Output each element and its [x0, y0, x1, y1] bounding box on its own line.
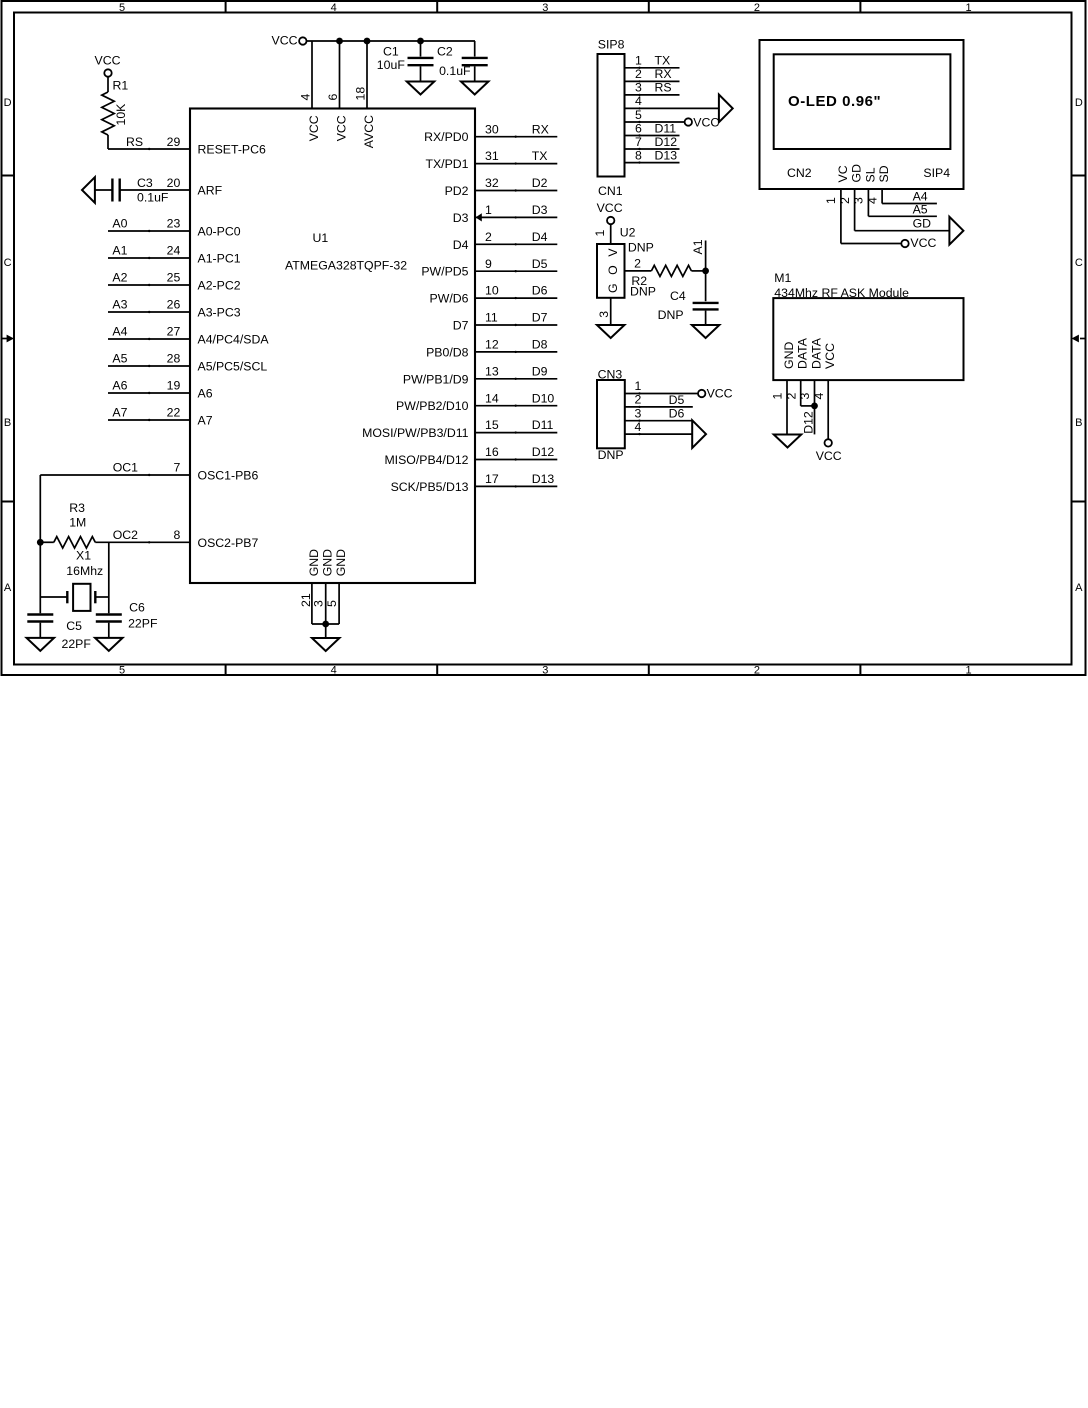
svg-text:3: 3 — [312, 600, 326, 607]
svg-text:ARF: ARF — [198, 184, 223, 198]
wire pin A4 — [108, 338, 190, 340]
svg-text:13: 13 — [485, 364, 499, 378]
svg-text:28: 28 — [167, 352, 181, 366]
svg-text:O-LED 0.96": O-LED 0.96" — [788, 93, 881, 110]
wire pin 30 net RX — [475, 136, 557, 138]
wire pin 14 net D10 — [475, 405, 557, 407]
svg-text:2: 2 — [635, 67, 642, 81]
OLED module CN2 outer body — [760, 40, 964, 189]
ground at U1 — [312, 638, 340, 651]
svg-text:5: 5 — [119, 2, 125, 14]
svg-text:22: 22 — [167, 406, 181, 420]
wire M1 pin2 — [800, 380, 802, 406]
svg-text:X1: X1 — [76, 549, 91, 563]
svg-text:8: 8 — [173, 528, 180, 542]
svg-text:31: 31 — [485, 149, 499, 163]
svg-text:A1: A1 — [112, 244, 127, 258]
svg-text:C: C — [1075, 257, 1083, 269]
border row ticks — [2, 175, 15, 177]
sheet border inner frame — [14, 13, 1072, 665]
svg-text:11: 11 — [485, 311, 498, 325]
svg-text:SD: SD — [877, 165, 891, 182]
sheet connector arrow GD — [949, 217, 963, 245]
ground at U2 pin3 — [597, 325, 625, 338]
svg-text:2: 2 — [754, 2, 760, 14]
wire right crystal leg — [108, 542, 110, 613]
svg-text:SCK/PB5/D13: SCK/PB5/D13 — [391, 480, 469, 494]
svg-text:D5: D5 — [669, 393, 685, 407]
wire CN1 pin 6 — [625, 135, 680, 137]
svg-text:C2: C2 — [437, 45, 453, 59]
svg-text:RS: RS — [655, 81, 672, 95]
svg-text:PW/PB2/D10: PW/PB2/D10 — [396, 399, 469, 413]
wire VCC rail — [307, 40, 476, 42]
svg-text:A0: A0 — [112, 217, 127, 231]
svg-text:A5: A5 — [112, 352, 127, 366]
VCC terminal circle — [299, 37, 306, 44]
svg-text:TX/PD1: TX/PD1 — [425, 157, 468, 171]
svg-text:30: 30 — [485, 122, 499, 136]
svg-text:A0-PC0: A0-PC0 — [198, 225, 241, 239]
svg-text:25: 25 — [167, 271, 181, 285]
svg-text:OC1: OC1 — [113, 461, 138, 475]
svg-text:D13: D13 — [655, 148, 678, 162]
ground left at C3 — [82, 177, 95, 203]
svg-text:A7: A7 — [112, 406, 127, 420]
svg-text:GND: GND — [307, 549, 321, 576]
svg-text:RX: RX — [532, 122, 549, 136]
wire M1 pin4 to VCC — [827, 380, 829, 439]
svg-text:D10: D10 — [532, 391, 555, 405]
capacitor C5 — [27, 613, 53, 615]
svg-text:2: 2 — [754, 665, 760, 677]
junction pin6/rail — [336, 38, 343, 45]
svg-text:A3-PC3: A3-PC3 — [198, 306, 241, 320]
svg-text:U1: U1 — [313, 231, 329, 245]
capacitor C1 — [420, 41, 422, 57]
svg-text:DNP: DNP — [598, 448, 624, 462]
wire CN3 pin4 — [625, 433, 692, 435]
ground at C1 — [407, 82, 435, 95]
svg-text:10uF: 10uF — [377, 58, 406, 72]
wire pin 32 net D2 — [475, 190, 557, 192]
capacitor C6 — [96, 613, 122, 615]
svg-text:A6: A6 — [112, 379, 127, 393]
junction GND bus — [322, 621, 329, 628]
svg-text:VCC: VCC — [816, 449, 842, 463]
svg-text:AVCC: AVCC — [362, 115, 376, 148]
svg-text:17: 17 — [485, 472, 499, 486]
svg-text:A2: A2 — [112, 271, 127, 285]
wire GND pin 5 — [338, 583, 340, 624]
svg-text:7: 7 — [635, 135, 642, 149]
svg-text:GD: GD — [850, 164, 864, 183]
svg-text:16: 16 — [485, 445, 499, 459]
svg-text:A1-PC1: A1-PC1 — [198, 252, 241, 266]
resistor R3 — [40, 541, 54, 543]
svg-text:6: 6 — [326, 94, 340, 101]
svg-text:D8: D8 — [532, 338, 548, 352]
svg-text:D13: D13 — [532, 472, 555, 486]
capacitor C4 — [693, 302, 719, 304]
wire OC2 — [95, 541, 190, 543]
svg-text:D: D — [4, 97, 12, 109]
svg-text:4: 4 — [635, 420, 642, 434]
svg-text:OC2: OC2 — [113, 528, 138, 542]
svg-text:C3: C3 — [137, 176, 153, 190]
capacitor C2 — [474, 41, 476, 57]
OLED screen inner box — [774, 54, 951, 149]
wire R1 to RESET — [107, 135, 109, 149]
svg-text:5: 5 — [119, 665, 125, 677]
wire U2 pin3 — [610, 298, 612, 325]
svg-text:PW/PD5: PW/PD5 — [421, 265, 468, 279]
wire pin A7 — [108, 419, 190, 421]
svg-text:U2: U2 — [620, 226, 636, 240]
svg-text:6: 6 — [635, 121, 642, 135]
junction R3/X1/C5 — [37, 539, 44, 546]
svg-text:1: 1 — [635, 54, 642, 68]
svg-text:R3: R3 — [69, 501, 85, 515]
svg-text:D11: D11 — [532, 418, 554, 432]
wire CN1 pin 8 — [625, 162, 680, 164]
wire pin 16 net D12 — [475, 459, 557, 461]
junction M1 pin2/pin3 — [811, 403, 818, 410]
svg-text:1: 1 — [635, 379, 642, 393]
wire U1 pin18 stub — [366, 41, 368, 109]
svg-text:14: 14 — [485, 391, 499, 405]
svg-text:PW/D6: PW/D6 — [430, 292, 469, 306]
svg-text:A: A — [1075, 582, 1083, 594]
wire CN1 pin 7 — [625, 148, 680, 150]
resistor R2 — [651, 265, 691, 276]
svg-text:4: 4 — [298, 94, 312, 101]
wire pin 1 net D3 — [475, 216, 557, 218]
svg-text:VCC: VCC — [707, 386, 733, 400]
svg-text:DATA: DATA — [810, 337, 824, 369]
svg-text:VC: VC — [836, 165, 850, 182]
wire pin A0 — [108, 230, 190, 232]
svg-text:VCC: VCC — [910, 236, 936, 250]
ground at M1 — [774, 435, 802, 448]
svg-text:2: 2 — [634, 257, 641, 271]
svg-text:0.1uF: 0.1uF — [439, 64, 471, 78]
svg-text:SIP4: SIP4 — [923, 166, 950, 180]
svg-text:8: 8 — [635, 148, 642, 162]
svg-text:A6: A6 — [198, 387, 213, 401]
svg-text:C: C — [4, 257, 12, 269]
svg-text:RX: RX — [655, 67, 672, 81]
wire R2 to A1 node — [691, 270, 705, 272]
wire CN1 pin 5 — [625, 121, 685, 123]
junction R2/C4/A1 — [702, 268, 709, 275]
svg-text:VCC: VCC — [307, 115, 321, 141]
svg-text:M1: M1 — [774, 271, 791, 285]
svg-text:3: 3 — [635, 406, 642, 420]
svg-text:19: 19 — [167, 379, 181, 393]
svg-text:27: 27 — [167, 325, 181, 339]
svg-text:32: 32 — [485, 176, 499, 190]
wire CN1 pin 2 — [625, 80, 680, 82]
svg-text:D11: D11 — [655, 121, 677, 135]
svg-text:MOSI/PW/PB3/D11: MOSI/PW/PB3/D11 — [362, 426, 469, 440]
wire pin A5 — [108, 365, 190, 367]
svg-text:MISO/PB4/D12: MISO/PB4/D12 — [384, 453, 468, 467]
left sheet alignment arrow — [2, 338, 8, 340]
svg-text:RS: RS — [126, 135, 143, 149]
svg-text:B: B — [1075, 417, 1082, 429]
svg-text:GND: GND — [782, 342, 796, 369]
wire pin 11 net D7 — [475, 324, 557, 326]
VCC terminal circle R1 — [104, 69, 111, 76]
wire CN3 pin1 — [625, 393, 698, 395]
wire GND pin 21 — [311, 583, 313, 624]
svg-text:5: 5 — [325, 600, 339, 607]
VCC terminal CN3 pin1 — [698, 390, 705, 397]
svg-text:A4: A4 — [913, 189, 928, 203]
svg-text:3: 3 — [542, 665, 548, 677]
wire CN1 pin 1 — [625, 67, 680, 69]
connector CN1 body — [598, 54, 625, 177]
wire pin A2 — [108, 284, 190, 286]
svg-text:A4: A4 — [112, 325, 127, 339]
wire CN1 pin 3 — [625, 94, 680, 96]
input arrow on pin 1 D3 — [476, 213, 482, 221]
svg-text:D9: D9 — [532, 364, 548, 378]
svg-text:TX: TX — [655, 54, 671, 68]
svg-text:22PF: 22PF — [128, 617, 158, 631]
wire OC1 — [40, 474, 190, 476]
svg-text:SL: SL — [863, 167, 877, 182]
wire ARF pin — [120, 189, 190, 191]
wire GND bus — [312, 623, 339, 625]
svg-text:4: 4 — [635, 94, 642, 108]
svg-text:TX: TX — [532, 149, 548, 163]
sheet connector arrow CN3 pin4 — [692, 420, 706, 448]
wire CN3 pin2 — [625, 406, 693, 408]
svg-text:1M: 1M — [69, 516, 86, 530]
svg-text:16Mhz: 16Mhz — [66, 564, 103, 578]
svg-text:C5: C5 — [66, 619, 82, 633]
wire pin 12 net D8 — [475, 351, 557, 353]
svg-text:3: 3 — [635, 81, 642, 95]
svg-text:DNP: DNP — [628, 241, 654, 255]
VCC terminal CN1 pin5 — [685, 118, 692, 125]
svg-text:VCC: VCC — [335, 115, 349, 141]
junction pin18/rail — [364, 38, 371, 45]
svg-text:A3: A3 — [112, 298, 127, 312]
svg-text:D6: D6 — [669, 407, 685, 421]
svg-text:1: 1 — [593, 230, 607, 237]
svg-text:RESET-PC6: RESET-PC6 — [198, 143, 266, 157]
wire pin 13 net D9 — [475, 378, 557, 380]
wire pin 9 net D5 — [475, 270, 557, 272]
svg-text:OSC1-PB6: OSC1-PB6 — [198, 469, 259, 483]
svg-text:2: 2 — [635, 393, 642, 407]
svg-text:OSC2-PB7: OSC2-PB7 — [198, 536, 259, 550]
svg-text:4: 4 — [865, 197, 879, 204]
svg-text:D3: D3 — [453, 211, 469, 225]
svg-text:C6: C6 — [129, 601, 145, 615]
svg-text:G O V: G O V — [606, 246, 620, 293]
svg-text:A7: A7 — [198, 414, 213, 428]
svg-text:RX/PD0: RX/PD0 — [424, 130, 469, 144]
wire VCC to U2 pin1 — [610, 224, 612, 244]
svg-text:A4/PC4/SDA: A4/PC4/SDA — [198, 333, 270, 347]
VCC terminal CN2 pin1 — [901, 240, 908, 247]
svg-text:2: 2 — [485, 230, 492, 244]
svg-text:VCC: VCC — [272, 34, 298, 48]
wire pin 17 net D13 — [475, 485, 557, 487]
wire GND pin 3 — [325, 583, 327, 624]
svg-text:7: 7 — [173, 461, 180, 475]
svg-text:D12: D12 — [532, 445, 555, 459]
svg-text:15: 15 — [485, 418, 499, 432]
svg-text:D: D — [1075, 97, 1083, 109]
svg-text:0.1uF: 0.1uF — [137, 191, 169, 205]
svg-text:D12: D12 — [655, 135, 678, 149]
border column ticks — [225, 1, 227, 13]
svg-text:2: 2 — [838, 197, 852, 204]
sheet border outer frame — [2, 1, 1086, 675]
svg-text:1: 1 — [965, 2, 971, 14]
svg-text:1: 1 — [485, 203, 492, 217]
svg-text:5: 5 — [635, 108, 642, 122]
svg-text:CN2: CN2 — [787, 166, 812, 180]
wire pin A1 — [108, 257, 190, 259]
resistor R1 — [102, 92, 114, 135]
wire pin 10 net D6 — [475, 297, 557, 299]
svg-text:4: 4 — [331, 665, 337, 677]
ground at C4 — [692, 325, 720, 338]
svg-text:1: 1 — [824, 197, 838, 204]
wire pin 2 net D4 — [475, 243, 557, 245]
wire U2 pin2 — [625, 270, 652, 272]
svg-text:18: 18 — [353, 87, 367, 101]
svg-text:ATMEGA328TQPF-32: ATMEGA328TQPF-32 — [285, 259, 407, 273]
RF module M1 body — [773, 298, 963, 380]
right sheet alignment arrow — [1080, 338, 1086, 340]
svg-text:12: 12 — [485, 338, 499, 352]
wire CN2 pin2 GD — [854, 189, 856, 231]
svg-text:D4: D4 — [532, 230, 548, 244]
wire U1 pin6 stub — [339, 41, 341, 109]
svg-text:3: 3 — [542, 2, 548, 14]
VCC terminal M1 pin4 — [825, 439, 832, 446]
svg-text:PW/PB1/D9: PW/PB1/D9 — [403, 372, 469, 386]
wire A1 stub — [705, 241, 707, 302]
wire VCC to R1 — [107, 77, 109, 92]
capacitor C3 — [111, 179, 113, 202]
svg-text:A: A — [4, 582, 12, 594]
svg-text:10K: 10K — [114, 103, 128, 126]
svg-text:GND: GND — [321, 549, 335, 576]
svg-text:9: 9 — [485, 257, 492, 271]
svg-text:PB0/D8: PB0/D8 — [426, 345, 469, 359]
svg-text:A5: A5 — [913, 203, 928, 217]
svg-text:SIP8: SIP8 — [598, 38, 625, 52]
svg-text:29: 29 — [167, 135, 181, 149]
svg-text:VCC: VCC — [823, 343, 837, 369]
svg-text:D5: D5 — [532, 257, 548, 271]
sheet connector arrow CN1 pin4 — [719, 95, 733, 123]
svg-text:D3: D3 — [532, 203, 548, 217]
op IC U1 body — [190, 109, 475, 584]
svg-text:24: 24 — [167, 244, 181, 258]
svg-text:C1: C1 — [383, 45, 399, 59]
svg-text:PD2: PD2 — [445, 184, 469, 198]
wire M1 pin3 D12 — [814, 380, 816, 434]
svg-text:GND: GND — [334, 549, 348, 576]
svg-text:26: 26 — [167, 298, 181, 312]
svg-text:VCC: VCC — [597, 201, 623, 215]
wire pin 31 net TX — [475, 163, 557, 165]
wire CN2 pin1 to VCC — [840, 189, 842, 244]
ground at C2 — [461, 82, 489, 95]
svg-text:CN1: CN1 — [598, 184, 623, 198]
svg-text:20: 20 — [167, 176, 181, 190]
wire M1 pin1 to ground — [786, 380, 788, 434]
svg-text:R1: R1 — [113, 79, 129, 93]
svg-text:3: 3 — [597, 311, 611, 318]
wire C3 to ground — [95, 189, 113, 191]
svg-text:D12: D12 — [801, 411, 815, 434]
svg-text:D7: D7 — [532, 311, 548, 325]
svg-text:VCC: VCC — [95, 54, 121, 68]
svg-text:B: B — [4, 417, 11, 429]
svg-text:10: 10 — [485, 284, 499, 298]
svg-text:DATA: DATA — [796, 337, 810, 369]
svg-text:GD: GD — [913, 216, 932, 230]
ground at C6 — [95, 638, 123, 651]
svg-text:1: 1 — [965, 665, 971, 677]
svg-text:A1: A1 — [691, 239, 705, 254]
svg-text:A5/PC5/SCL: A5/PC5/SCL — [198, 360, 268, 374]
svg-text:23: 23 — [167, 217, 181, 231]
svg-text:A2-PC2: A2-PC2 — [198, 279, 241, 293]
svg-text:D2: D2 — [532, 176, 548, 190]
wire pin 15 net D11 — [475, 432, 557, 434]
svg-text:1: 1 — [771, 393, 785, 400]
svg-text:C4: C4 — [670, 289, 686, 303]
wire CN1 pin 4 — [625, 107, 719, 109]
VCC terminal circle U2 — [607, 217, 614, 224]
svg-text:D7: D7 — [453, 319, 469, 333]
wire CN2 pin3 A5 — [867, 189, 869, 216]
junction C1/rail — [417, 38, 424, 45]
ground at C5 — [27, 638, 55, 651]
svg-text:DNP: DNP — [630, 285, 656, 299]
wire CN3 pin3 — [625, 420, 692, 422]
regulator U2 body — [597, 244, 625, 298]
svg-text:DNP: DNP — [658, 308, 684, 322]
svg-text:VCC: VCC — [693, 115, 719, 129]
crystal X1 — [66, 591, 68, 603]
wire pin A3 — [108, 311, 190, 313]
wire U1 pin4 stub — [311, 41, 313, 109]
wire CN2 pin4 A4 — [881, 189, 883, 204]
connector CN3 body — [597, 380, 625, 448]
wire left crystal leg — [39, 542, 41, 613]
svg-text:D4: D4 — [453, 238, 469, 252]
svg-text:4: 4 — [331, 2, 337, 14]
svg-text:22PF: 22PF — [62, 637, 92, 651]
wire pin A6 — [108, 392, 190, 394]
svg-text:D6: D6 — [532, 284, 548, 298]
